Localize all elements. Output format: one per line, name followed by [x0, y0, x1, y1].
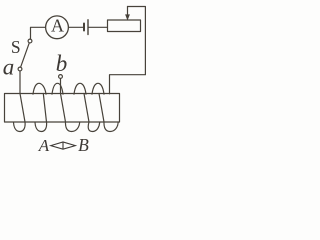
node b terminal	[59, 75, 63, 79]
coil L1 rear bump 3	[74, 83, 86, 94]
battery cell long plate	[87, 20, 89, 35]
coil L1 rear bump 2	[52, 83, 63, 94]
svg-text:b: b	[56, 51, 68, 76]
node a terminal	[18, 67, 22, 71]
coil L1 turn 5 front strand and bottom loop	[99, 94, 118, 132]
coil L1 rear bump 4	[92, 83, 104, 94]
coil L1 turn 3 front strand and bottom loop	[61, 94, 80, 132]
rheostat body R	[108, 20, 141, 32]
svg-text:A: A	[38, 136, 50, 155]
wire terminal b down to coil	[60, 78, 62, 93]
switch blade	[21, 43, 30, 67]
wire ammeter to battery	[68, 26, 83, 28]
svg-text:B: B	[78, 135, 89, 155]
rheostat slider arrow shaft	[127, 7, 129, 16]
compass needle symbol	[51, 142, 76, 149]
ammeter A1 circle	[46, 16, 69, 39]
wire battery to rheostat	[89, 26, 108, 28]
battery cell short plate	[83, 24, 85, 31]
switch pivot node	[28, 39, 32, 43]
iron core bar	[5, 94, 120, 123]
wire top-left horizontal to ammeter	[31, 27, 46, 39]
rheostat slider arrowhead	[125, 14, 130, 20]
svg-text:A: A	[51, 16, 64, 36]
coil L1 turn 2 front strand and bottom loop	[35, 94, 47, 132]
coil L1 turn 1 front strand and bottom loop	[14, 94, 26, 132]
wire rheostat slider to right side	[110, 7, 146, 94]
wire terminal a down to coil	[19, 71, 21, 94]
svg-text:a: a	[3, 55, 15, 80]
coil L1 rear bump 1	[33, 83, 46, 94]
coil L1 turn 4 front strand and bottom loop	[84, 94, 100, 132]
